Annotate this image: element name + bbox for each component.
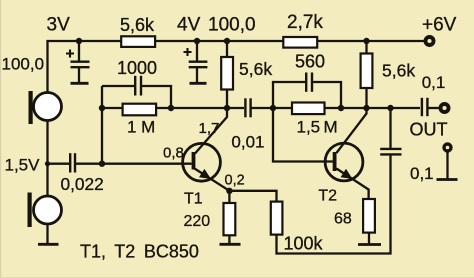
resistor R2 5,6k vertical [221, 57, 233, 90]
transistor T1 emitter line [195, 169, 230, 191]
svg-text:100,0: 100,0 [208, 15, 256, 36]
wire R7 bottom lead [228, 235, 230, 243]
wire feedback vertical T1 [101, 86, 103, 164]
resistor R9 68 vertical [363, 199, 375, 233]
terminal OUT ground [444, 144, 451, 151]
terminal OUT [441, 104, 449, 112]
microphone MIC1 back plate [29, 91, 33, 124]
wire mid line segment R6 to caps [325, 107, 421, 109]
node supply cap C1 [76, 38, 82, 44]
transistor T2 collector line [336, 108, 366, 153]
wire 560 branch [273, 82, 305, 108]
microphone MIC2 body [34, 196, 62, 224]
wire C2 bottom lead [196, 67, 198, 83]
svg-text:T1: T1 [184, 191, 203, 208]
svg-text:0,01: 0,01 [231, 133, 264, 152]
wire C8 to OUT [427, 107, 439, 109]
wire mid line segment C5 to node A [251, 107, 292, 109]
wire 560 branch right [312, 82, 341, 108]
ground under R7 [220, 243, 241, 246]
svg-text:OUT: OUT [410, 120, 448, 140]
wire MIC1 to junction 1,5V [46, 121, 48, 196]
capacitor C7 0,1 vertical plates [380, 148, 401, 150]
wire R8 bottom to output cap [277, 155, 391, 253]
wire R4 bottom lead [365, 88, 367, 108]
capacitor C6 560 plates [305, 73, 307, 92]
transistor T2 base bar [333, 152, 337, 171]
ground under OUT terminal [437, 178, 458, 181]
capacitor C4 1000 plates [134, 76, 136, 96]
svg-text:1 M: 1 M [127, 118, 155, 137]
capacitor C2 plus sign [184, 48, 192, 56]
terminal +6V [426, 37, 434, 45]
resistor R3 2,7k horizontal [283, 37, 317, 48]
ground under R9 [358, 243, 381, 246]
svg-text:100k: 100k [284, 234, 324, 254]
wire C7 top lead [389, 108, 391, 149]
svg-text:T1, T2 BC850: T1, T2 BC850 [80, 242, 199, 262]
svg-text:1,5V: 1,5V [5, 156, 41, 175]
wire mid line left segment [102, 107, 244, 109]
wire R2 top lead [226, 41, 228, 57]
svg-text:0,2: 0,2 [225, 173, 245, 189]
capacitor C1 plus sign [66, 50, 74, 58]
svg-text:+6V: +6V [422, 15, 457, 36]
ground under MIC2 [38, 243, 59, 246]
wire R9 bottom lead [368, 233, 370, 244]
capacitor C1 100,0 electrolytic plates [71, 61, 90, 63]
wire C4 branch right [141, 86, 171, 108]
node T1 collector junction [224, 105, 230, 111]
bottom edge shade [0, 277, 474, 278]
capacitor C8 0,1 horizontal plates [421, 98, 423, 116]
svg-text:0,1: 0,1 [422, 73, 446, 92]
transistor T1 circle [183, 143, 221, 181]
svg-text:1,5 M: 1,5 M [297, 118, 338, 137]
resistor R7 220 vertical [224, 203, 236, 235]
node output junction [387, 105, 393, 111]
wire junction to C3 [48, 163, 70, 165]
node T2 collector junction [363, 105, 369, 111]
wire R4 top lead [365, 41, 367, 54]
wire MIC2 to ground [46, 224, 48, 244]
svg-text:5,6k: 5,6k [120, 15, 155, 35]
resistor R8 100k vertical [271, 202, 283, 235]
transistor T2 emitter line [336, 169, 368, 200]
capacitor C5 0,01 plates [244, 98, 246, 117]
wire C2 top lead [196, 41, 198, 62]
node base feedback junction [99, 161, 105, 167]
svg-text:5,6k: 5,6k [239, 59, 272, 79]
svg-text:T2: T2 [318, 188, 337, 205]
wire T2 base [273, 108, 333, 162]
ground under C2 [190, 82, 207, 85]
node supply cap C2 [194, 38, 200, 44]
node C4 right junction [168, 105, 174, 111]
node T1 emitter [226, 188, 232, 194]
wire top supply rail [48, 41, 425, 92]
left edge shade [0, 0, 1, 278]
node mid line left [99, 105, 105, 111]
wire C3 to T1 base [75, 163, 192, 165]
svg-text:0,8: 0,8 [163, 145, 184, 162]
transistor T2 circle [325, 143, 363, 181]
wire OUT ground lead [446, 153, 448, 180]
svg-text:1000: 1000 [117, 58, 157, 78]
wire C4 branch left [102, 85, 134, 87]
wire R2 bottom lead [226, 90, 228, 109]
svg-text:5,6k: 5,6k [382, 61, 415, 81]
microphone MIC1 body [34, 93, 62, 121]
resistor R6 1,5M horizontal [292, 103, 325, 115]
svg-text:100,0: 100,0 [2, 55, 45, 74]
svg-text:220: 220 [184, 213, 211, 230]
resistor R5 1M horizontal [123, 104, 157, 116]
wire C1 top lead [78, 41, 80, 62]
node 1,5V junction [45, 161, 50, 166]
wire emitter to R8 [229, 191, 276, 202]
node 560 right junction [338, 105, 344, 111]
node R4 top [363, 38, 369, 44]
svg-text:0,1: 0,1 [410, 164, 434, 183]
svg-text:1,7: 1,7 [199, 120, 220, 137]
microphone MIC2 back plate [28, 193, 32, 228]
capacitor C3 0,022 plates [69, 153, 71, 172]
resistor R4 5,6k vertical [361, 54, 373, 89]
capacitor C2 100,0 electrolytic plates [189, 61, 208, 63]
wire R7 top lead [228, 191, 230, 203]
svg-text:2,7k: 2,7k [287, 12, 323, 33]
transistor T1 base bar [192, 152, 196, 170]
ground under C1 [71, 82, 89, 85]
svg-text:4V: 4V [177, 15, 201, 36]
svg-text:0,022: 0,022 [61, 174, 104, 194]
node A T2 base [270, 105, 276, 111]
svg-text:3V: 3V [47, 15, 71, 36]
resistor R1 5,6k horizontal [121, 36, 155, 47]
svg-text:560: 560 [295, 52, 325, 72]
transistor T1 collector line [195, 108, 227, 154]
svg-text:68: 68 [334, 211, 352, 228]
transistor T1 emitter arrow [199, 169, 211, 179]
wire C1 bottom lead [78, 67, 80, 83]
transistor T2 emitter arrow [341, 169, 353, 179]
node R2 top [224, 38, 230, 44]
